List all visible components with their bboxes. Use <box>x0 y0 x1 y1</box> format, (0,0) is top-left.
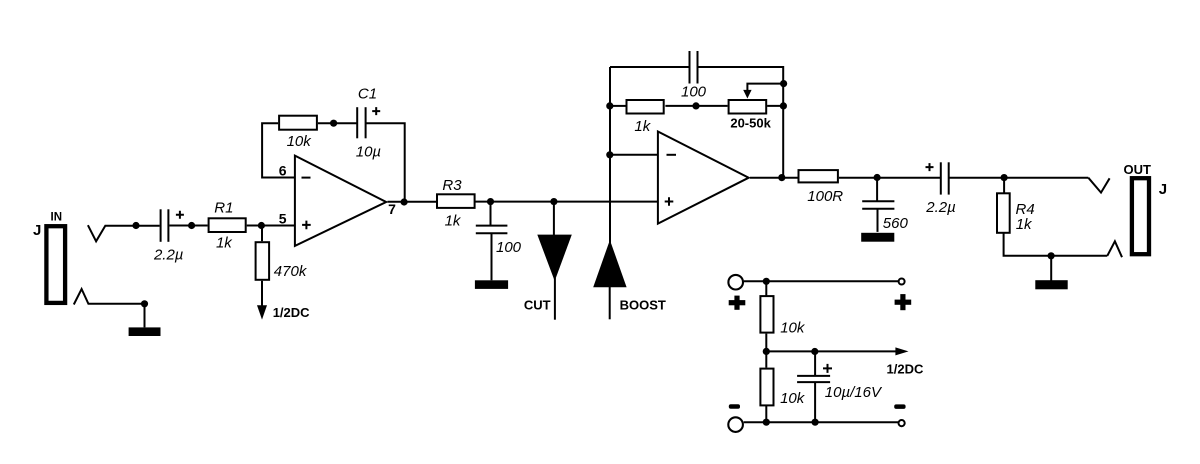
svg-text:C1: C1 <box>358 86 377 103</box>
svg-text:100R: 100R <box>807 188 843 205</box>
svg-text:J: J <box>1159 181 1167 198</box>
svg-text:2.2µ: 2.2µ <box>925 199 956 216</box>
svg-text:10µ/16V: 10µ/16V <box>825 384 883 401</box>
svg-text:IN: IN <box>51 212 63 224</box>
svg-text:1k: 1k <box>216 235 233 252</box>
svg-text:560: 560 <box>883 215 909 232</box>
svg-text:1k: 1k <box>1016 216 1033 233</box>
svg-text:10k: 10k <box>287 133 313 150</box>
svg-text:5: 5 <box>279 210 287 226</box>
svg-text:1/2DC: 1/2DC <box>273 305 310 320</box>
svg-text:2.2µ: 2.2µ <box>153 247 184 264</box>
svg-text:10k: 10k <box>780 320 806 337</box>
svg-text:100: 100 <box>496 239 522 256</box>
svg-text:BOOST: BOOST <box>620 297 666 312</box>
svg-text:1k: 1k <box>634 118 651 135</box>
svg-text:10µ: 10µ <box>356 144 381 161</box>
svg-text:470k: 470k <box>274 263 308 280</box>
svg-text:OUT: OUT <box>1123 162 1151 177</box>
svg-text:6: 6 <box>279 162 287 178</box>
svg-text:R3: R3 <box>442 177 462 194</box>
svg-text:10k: 10k <box>780 390 806 407</box>
svg-text:1/2DC: 1/2DC <box>887 361 924 376</box>
svg-text:100: 100 <box>681 84 707 101</box>
svg-text:20-50k: 20-50k <box>730 115 771 130</box>
svg-text:J: J <box>33 222 41 239</box>
svg-text:7: 7 <box>388 201 396 217</box>
svg-text:R1: R1 <box>214 200 233 217</box>
svg-text:CUT: CUT <box>524 297 551 312</box>
svg-text:1k: 1k <box>445 213 462 230</box>
